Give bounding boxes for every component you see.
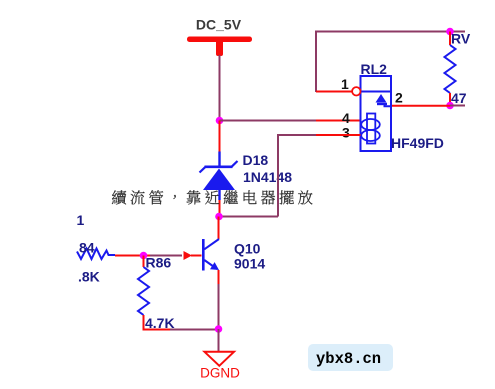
wire: DC_5V rail down to node A <box>219 55 221 121</box>
svg-text:ybx8.cn: ybx8.cn <box>316 350 381 368</box>
svg-text:1: 1 <box>341 76 349 92</box>
wire: node F to ground <box>218 329 220 352</box>
node E junction base/R86 <box>140 252 148 260</box>
watermark ybx8.cn <box>308 344 393 371</box>
base arrow <box>184 251 193 260</box>
wire: node D to Q10 collector <box>218 217 220 240</box>
svg-text:2: 2 <box>395 90 403 106</box>
power symbol DC_5V <box>187 17 252 57</box>
svg-text:RL2: RL2 <box>361 61 388 77</box>
note text (Chinese) <box>112 190 313 204</box>
resistor R84 (partial, left edge) <box>77 212 116 285</box>
svg-text:9014: 9014 <box>234 256 265 272</box>
node A junction at 5V rail <box>216 117 224 125</box>
svg-text:D18: D18 <box>243 152 269 168</box>
resistor R86 4.7K <box>138 255 175 332</box>
svg-text:HF49FD: HF49FD <box>391 135 444 151</box>
svg-text:Q10: Q10 <box>234 241 261 257</box>
wire: Q10 emitter down <box>218 270 220 329</box>
svg-text:RV: RV <box>451 31 471 47</box>
node F junction emitter/R86 <box>215 325 223 333</box>
relay RL2 HF49FD <box>361 61 444 151</box>
node D junction collector/diode <box>215 213 223 221</box>
relay pin 1 open circle <box>352 87 360 95</box>
ground DGND <box>200 352 240 381</box>
svg-text:R86: R86 <box>146 255 172 271</box>
svg-text:DGND: DGND <box>200 366 240 381</box>
diode D18 1N4148 <box>200 121 293 217</box>
node B junction top of RV resistor <box>446 28 454 36</box>
svg-text:1N4148: 1N4148 <box>243 169 292 185</box>
wire: node A to relay pin 4 <box>220 120 361 122</box>
wire: R86 bottom to node F <box>143 329 218 331</box>
svg-text:3: 3 <box>342 125 350 141</box>
node C junction bottom of RV / relay pin 2 <box>446 102 454 110</box>
wire: top rail from relay pin 1 riser <box>316 31 465 93</box>
wire: relay pin 2 to node C <box>391 105 465 107</box>
svg-text:.8K: .8K <box>78 269 100 285</box>
svg-text:DC_5V: DC_5V <box>196 17 242 33</box>
relay coil <box>361 114 380 144</box>
wire: relay pin 3 to node D <box>219 134 361 217</box>
svg-text:1: 1 <box>77 212 85 228</box>
wire: base wire from R84 <box>115 255 202 257</box>
resistor RV (47) top right <box>445 31 471 107</box>
relay switch arrow <box>376 94 392 106</box>
svg-text:47: 47 <box>451 90 467 106</box>
transistor Q10 9014 <box>203 239 265 272</box>
svg-text:84: 84 <box>79 240 95 256</box>
